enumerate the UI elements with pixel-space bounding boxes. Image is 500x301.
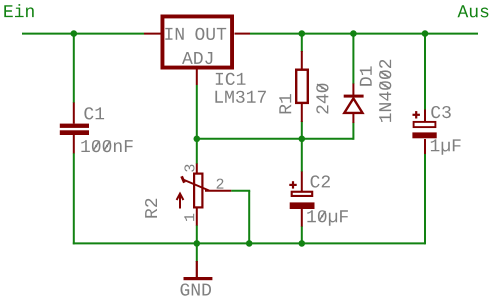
capacitor C3 plus sign xyxy=(413,114,420,116)
regulator IC1 body box xyxy=(162,16,232,67)
junction dot D1 top xyxy=(350,30,357,37)
diode D1 cathode bar xyxy=(344,95,364,98)
resistor R1 pin top xyxy=(301,51,303,69)
slash of zero in 10uF xyxy=(319,211,325,221)
wire ADJ branch vertical xyxy=(196,85,198,139)
R2 pin number 3 (rotated) xyxy=(184,165,194,172)
R2 name label (rotated) xyxy=(145,199,157,218)
ground symbol stem xyxy=(196,261,198,278)
wire bottom rail xyxy=(73,242,425,244)
IC1 pin ADJ stub xyxy=(196,69,198,86)
potentiometer R2 pin3 stub xyxy=(196,164,198,173)
wire R2 wiper branch horizontal xyxy=(231,190,250,192)
capacitor C2 bottom plate (filled) xyxy=(290,202,315,209)
IC1 pin name OUT xyxy=(195,28,226,40)
R2 pin number 2 xyxy=(217,179,224,189)
node Aus label xyxy=(458,5,489,17)
IC1 value label LM317 xyxy=(215,91,266,103)
R2 pin number 1 (rotated) xyxy=(184,214,194,221)
capacitor C2 pin bottom xyxy=(301,209,303,227)
wire R1 top branch xyxy=(301,34,303,52)
wire GND stub xyxy=(196,243,198,262)
wire C2 bottom branch xyxy=(301,226,303,243)
IC1 name label xyxy=(216,73,246,85)
slash of zero in 240 (rotated) xyxy=(317,84,327,90)
wire R2 pin1 branch xyxy=(196,225,198,243)
node Ein label xyxy=(4,4,33,17)
capacitor C2 pin top xyxy=(301,172,303,192)
C1 value label 100nF xyxy=(81,140,132,152)
C1 name label xyxy=(84,107,104,119)
wire mid rail (ADJ net) xyxy=(197,138,354,140)
wire R2 pin3 branch xyxy=(196,139,198,164)
potentiometer R2 wiper pin2 stub xyxy=(205,190,231,192)
wire D1 bottom branch xyxy=(352,122,354,140)
potentiometer R2 wiper end tick xyxy=(182,176,185,182)
C2 name label xyxy=(311,175,330,187)
slash of second zero in 100nF xyxy=(104,141,110,151)
junction dot R1 top xyxy=(299,30,306,37)
C3 name label xyxy=(431,106,451,118)
junction dot Ein/C1 xyxy=(71,30,78,37)
slash of first zero in 100nF xyxy=(93,141,99,151)
IC1 pin OUT stub xyxy=(235,33,251,35)
potentiometer R2 pin1 stub xyxy=(196,209,198,226)
R1 value label 240 (rotated) xyxy=(316,84,328,114)
D1 name label (rotated) xyxy=(360,66,372,85)
capacitor C1 top plate xyxy=(60,124,89,128)
capacitor C3 pin top xyxy=(424,110,426,122)
wire top rail left (Ein to IC1 IN) xyxy=(22,33,144,35)
junction dot C2 bottom xyxy=(299,240,306,247)
capacitor C3 top plate (hollow) xyxy=(414,122,436,127)
wire R2 wiper branch vertical xyxy=(248,191,250,244)
capacitor C2 top plate (hollow) xyxy=(292,192,313,196)
C2 value label 10uF xyxy=(307,210,348,226)
wire C1 branch vertical xyxy=(73,34,75,103)
C3 value label 1uF xyxy=(431,139,461,154)
potentiometer R2 adjust arrow xyxy=(179,196,181,209)
wire D1 top branch xyxy=(352,34,354,84)
resistor R1 body xyxy=(296,70,308,103)
potentiometer R2 wiper diagonal xyxy=(183,180,209,191)
ground symbol bar xyxy=(184,277,213,280)
IC1 pin name IN xyxy=(165,28,183,40)
resistor R1 pin bottom xyxy=(301,104,303,122)
capacitor C2 plus sign xyxy=(289,184,296,186)
junction dot GND node xyxy=(194,240,201,247)
capacitor C1 pin top xyxy=(73,103,75,124)
wire C3 branch vertical xyxy=(424,34,426,110)
capacitor C3 bottom plate (filled) xyxy=(412,132,436,138)
junction dot ADJ/R2 xyxy=(194,136,201,143)
junction dot C3 top xyxy=(422,30,429,37)
R1 name label (rotated) xyxy=(279,94,291,113)
junction dot R2 pin2 bottom xyxy=(246,240,253,247)
ground label GND xyxy=(181,284,212,296)
slashes of zeros in 1N4002 (rotated) xyxy=(380,82,390,88)
wire C2 top branch xyxy=(301,139,303,172)
capacitor C1 bottom plate xyxy=(60,130,89,135)
junction dot R1/C2 mid xyxy=(299,136,306,143)
capacitor C3 pin bottom xyxy=(424,139,426,154)
diode D1 pin bottom xyxy=(352,114,354,123)
wire top rail right (IC1 OUT to Aus) xyxy=(250,33,478,35)
diode D1 pin top xyxy=(352,84,354,96)
wire R1 bottom branch xyxy=(301,121,303,139)
D1 value label 1N4002 (rotated) xyxy=(379,60,391,122)
potentiometer R2 body xyxy=(194,174,202,208)
IC1 pin name ADJ xyxy=(182,52,212,64)
op-amp/regulator IC1 pin IN stub xyxy=(144,33,161,35)
capacitor C1 pin bottom xyxy=(73,135,75,153)
diode D1 triangle (anode) xyxy=(344,98,362,113)
